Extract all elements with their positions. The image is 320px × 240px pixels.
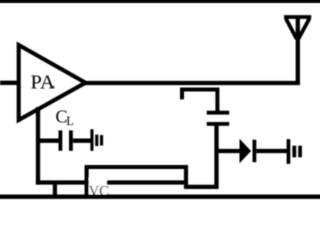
svg-text:L: L xyxy=(66,114,74,128)
wire PA output to antenna xyxy=(85,81,300,85)
svg-text:VC: VC xyxy=(89,183,109,199)
diode D1 xyxy=(240,140,250,162)
capacitor C2 xyxy=(207,111,230,115)
wire PA bottom vertical xyxy=(36,107,40,185)
wire bottom-right horizontal xyxy=(186,185,219,189)
wire antenna feed xyxy=(296,16,300,85)
capacitor CL xyxy=(59,130,63,150)
antenna xyxy=(284,17,311,39)
wire CL branch left xyxy=(38,139,59,143)
wire CL right xyxy=(73,139,91,143)
wire bottom horizontal to VC box xyxy=(36,180,186,184)
svg-text:PA: PA xyxy=(31,72,56,94)
input wire xyxy=(0,81,20,85)
wire cap to bottom xyxy=(214,126,218,189)
bottom border bar xyxy=(0,195,320,199)
knockout for VC label xyxy=(89,178,107,194)
ground stub xyxy=(53,183,57,197)
wire diode branch xyxy=(217,149,241,153)
VC box xyxy=(87,167,186,197)
ground right xyxy=(287,139,302,164)
coupler bracket xyxy=(182,90,217,112)
ground CL xyxy=(90,129,103,151)
wire diode to ground xyxy=(256,149,287,153)
top border bar xyxy=(0,0,320,3)
op-amp PA xyxy=(19,45,86,120)
